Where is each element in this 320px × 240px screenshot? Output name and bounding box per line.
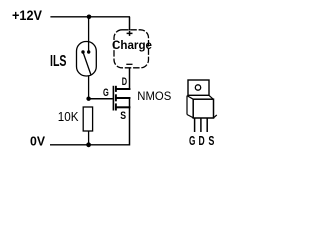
wire resistor to 0V rail: [88, 131, 90, 145]
load Charge box: [114, 30, 149, 68]
TO-220 body front face: [193, 99, 213, 118]
TO-220 bottom-left diagonal: [187, 115, 193, 118]
svg-text:S: S: [208, 133, 214, 148]
TO-220 leg D: [200, 118, 202, 132]
TO-220 bottom-right diagonal: [213, 115, 216, 118]
svg-text:10K: 10K: [58, 110, 79, 124]
svg-text:ILS: ILS: [50, 53, 67, 70]
svg-text:S: S: [120, 110, 126, 122]
NMOS channel segment bottom: [115, 103, 117, 110]
wire charge to drain: [129, 68, 131, 90]
TO-220 back-left edge: [186, 96, 188, 115]
wire gate node to gate: [89, 98, 113, 100]
charge minus terminal: [126, 63, 132, 65]
NMOS channel segment middle: [115, 94, 117, 101]
svg-text:G: G: [189, 133, 195, 148]
wire 0V rail: [50, 144, 130, 146]
wire rail to charge: [129, 17, 131, 31]
TO-220 mounting hole: [195, 85, 200, 90]
svg-text:G: G: [103, 87, 109, 99]
charge plus terminal: [127, 31, 133, 36]
TO-220 top-left diagonal: [187, 96, 193, 100]
transistor Q1 NMOS gate bar: [112, 86, 114, 111]
svg-text:0V: 0V: [30, 133, 45, 148]
NMOS drain stub: [117, 88, 131, 90]
ILS switch blade: [83, 53, 91, 75]
TO-220 leg G: [194, 118, 196, 132]
resistor R 10K body: [83, 107, 92, 131]
ILS contact dot right: [87, 50, 90, 53]
junction dot top rail: [87, 14, 92, 19]
reed switch ILS body: [77, 42, 97, 77]
svg-text:D: D: [122, 76, 127, 88]
NMOS source stub: [117, 106, 131, 108]
svg-text:Charge: Charge: [112, 38, 152, 52]
wire rail to ILS: [88, 17, 90, 52]
svg-text:+12V: +12V: [12, 8, 43, 23]
ILS contact dot left: [81, 50, 84, 53]
junction dot gate node: [86, 97, 90, 101]
wire +12V rail: [50, 16, 130, 18]
wire source to 0V rail: [129, 97, 131, 146]
NMOS body stub: [117, 97, 131, 99]
NMOS channel segment top: [115, 86, 117, 92]
svg-text:NMOS: NMOS: [137, 89, 171, 103]
TO-220 package tab: [188, 80, 209, 95]
junction dot bottom rail: [86, 142, 91, 147]
TO-220 leg S: [206, 118, 208, 132]
svg-text:D: D: [199, 133, 205, 148]
wire ILS to gate node: [88, 76, 90, 99]
TO-220 top-right diagonal: [209, 95, 214, 99]
